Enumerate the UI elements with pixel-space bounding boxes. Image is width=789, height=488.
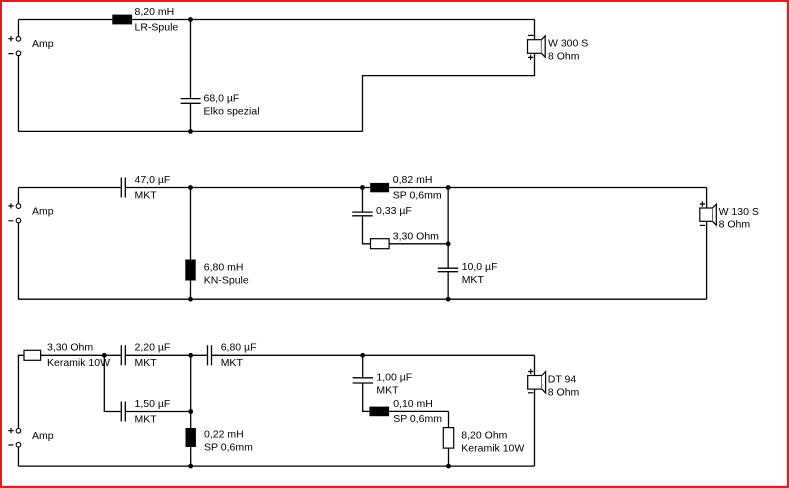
source Amp (top circuit) — [8, 36, 53, 56]
resistor 3,30 Ohm — [371, 230, 440, 248]
inductor 0,10 mH SP 0,6mm — [369, 398, 442, 425]
wire Amp- down — [17, 56, 19, 132]
svg-text:SP 0,6mm: SP 0,6mm — [393, 413, 442, 425]
svg-text:LR-Spule: LR-Spule — [135, 21, 179, 33]
junction node T2 — [188, 353, 193, 358]
svg-text:Amp: Amp — [32, 430, 54, 442]
wire Amp+ up — [17, 20, 19, 37]
wire speaker drop — [534, 355, 536, 375]
wire bottom rail — [18, 298, 706, 300]
svg-text:W 130 S: W 130 S — [719, 206, 759, 218]
junction node T4 — [360, 353, 365, 358]
wire T2 branch down — [190, 355, 192, 466]
capacitor 0,33 µF — [352, 205, 412, 217]
junction node M1 bottom — [188, 297, 193, 302]
svg-text:SP 0,6mm: SP 0,6mm — [393, 189, 442, 201]
wire notch cap branch down — [362, 188, 364, 212]
wire speaker return step — [363, 53, 535, 131]
junction node M1 — [188, 185, 193, 190]
speaker W 300 S 8 Ohm — [528, 35, 589, 62]
wire shunt branch down — [190, 20, 192, 99]
wire top rail to first cap — [41, 354, 121, 356]
svg-text:8 Ohm: 8 Ohm — [548, 386, 580, 398]
wire cap to bottom rail — [447, 272, 449, 299]
svg-text:MKT: MKT — [135, 189, 158, 201]
svg-text:Amp: Amp — [32, 205, 54, 217]
wire bottom rail — [18, 130, 362, 132]
inductor 0,82 mH SP 0,6mm — [370, 174, 442, 201]
wire top rail — [18, 19, 534, 21]
junction node bottom rail — [188, 129, 193, 134]
svg-text:Amp: Amp — [32, 38, 54, 50]
svg-text:DT 94: DT 94 — [548, 374, 577, 386]
svg-text:8 Ohm: 8 Ohm — [719, 218, 751, 230]
junction node T1 — [102, 353, 107, 358]
svg-text:1,00 µF: 1,00 µF — [376, 371, 412, 383]
svg-text:8,20 mH: 8,20 mH — [135, 6, 175, 18]
capacitor 6,80 µF MKT — [208, 342, 257, 369]
inductor 6,80 mH KN-Spule — [185, 260, 249, 287]
wire cap down and right — [363, 384, 449, 412]
junction node at top rail / shunt branch — [188, 17, 193, 22]
svg-text:MKT: MKT — [135, 413, 158, 425]
wire M3 down to cap — [447, 188, 449, 268]
wire cap to resistor — [363, 216, 371, 243]
junction node M2 — [360, 185, 365, 190]
wire cap to node T3 — [126, 411, 191, 413]
svg-text:W 300 S: W 300 S — [548, 38, 588, 50]
svg-text:0,22 mH: 0,22 mH — [204, 429, 244, 441]
capacitor 1,00 µF MKT — [353, 371, 413, 396]
svg-text:3,30 Ohm: 3,30 Ohm — [393, 230, 439, 242]
svg-text:0,33 µF: 0,33 µF — [376, 205, 412, 217]
svg-text:Keramik 10W: Keramik 10W — [461, 443, 524, 455]
wire bottom rail — [18, 465, 534, 467]
capacitor 2,20 µF MKT — [121, 342, 170, 369]
svg-text:47,0 µF: 47,0 µF — [135, 174, 171, 186]
resistor 8,20 Ohm Keramik 10W — [443, 428, 524, 455]
svg-text:8,20 Ohm: 8,20 Ohm — [461, 430, 507, 442]
svg-text:Elko spezial: Elko spezial — [204, 105, 260, 117]
svg-text:0,82 mH: 0,82 mH — [393, 174, 433, 186]
wire speaker to bottom rail — [534, 389, 536, 466]
wire shunt inductor branch — [190, 188, 192, 300]
speaker DT 94 8 Ohm — [528, 369, 580, 398]
junction node M3 top — [446, 185, 451, 190]
wire resistor to node — [389, 243, 448, 245]
wire top rail right of cap — [126, 187, 707, 189]
wire T4 down to cap — [362, 355, 364, 377]
capacitor 68,0 µF Elko spezial — [181, 92, 260, 117]
resistor 3,30 Ohm Keramik 10W — [24, 342, 110, 369]
svg-text:MKT: MKT — [462, 274, 485, 286]
wire Amp- down — [17, 447, 19, 466]
inductor 8,20 mH LR-Spule — [112, 6, 178, 33]
svg-text:Keramik 10W: Keramik 10W — [47, 357, 110, 369]
inductor 0,22 mH SP 0,6mm — [186, 428, 254, 454]
svg-text:68,0 µF: 68,0 µF — [204, 92, 240, 104]
wire down to resistor — [448, 411, 450, 427]
svg-text:MKT: MKT — [221, 357, 244, 369]
svg-text:6,80 µF: 6,80 µF — [221, 342, 257, 354]
junction node bottom rail M3 — [446, 297, 451, 302]
wire Amp+ up — [17, 188, 19, 204]
svg-text:3,30 Ohm: 3,30 Ohm — [47, 342, 93, 354]
svg-text:8 Ohm: 8 Ohm — [548, 50, 580, 62]
svg-text:SP 0,6mm: SP 0,6mm — [204, 442, 253, 454]
speaker W 130 S 8 Ohm — [700, 201, 759, 230]
wire T1 branch down — [104, 355, 120, 411]
junction node T3 — [188, 409, 193, 414]
source Amp (bottom circuit) — [8, 428, 53, 447]
svg-text:2,20 µF: 2,20 µF — [135, 342, 171, 354]
wire resistor to bottom rail — [448, 448, 450, 466]
wire Amp- down — [17, 223, 19, 299]
svg-text:MKT: MKT — [135, 357, 158, 369]
junction node bottom rail T2 — [188, 464, 193, 469]
svg-text:1,50 µF: 1,50 µF — [135, 398, 171, 410]
wire shunt branch to bottom rail — [190, 104, 192, 131]
wire speaker drop — [534, 20, 536, 40]
junction node notch rejoin — [446, 241, 451, 246]
junction node bottom rail notch — [446, 464, 451, 469]
wire Amp+ up — [18, 355, 24, 428]
capacitor 1,50 µF MKT — [121, 398, 170, 425]
svg-text:KN-Spule: KN-Spule — [204, 274, 249, 286]
source Amp (middle circuit) — [8, 203, 53, 223]
capacitor 47,0 µF MKT — [121, 174, 170, 201]
svg-text:10,0 µF: 10,0 µF — [462, 261, 498, 273]
capacitor 10,0 µF MKT — [438, 261, 498, 286]
wire top rail left of cap — [18, 187, 120, 189]
wire between caps — [126, 354, 207, 356]
svg-text:MKT: MKT — [376, 384, 399, 396]
wire speaker to bottom rail — [706, 221, 708, 299]
wire speaker drop — [706, 188, 708, 209]
wire top rail right of caps — [212, 354, 534, 356]
svg-text:0,10 mH: 0,10 mH — [393, 398, 433, 410]
svg-text:6,80 mH: 6,80 mH — [204, 261, 244, 273]
